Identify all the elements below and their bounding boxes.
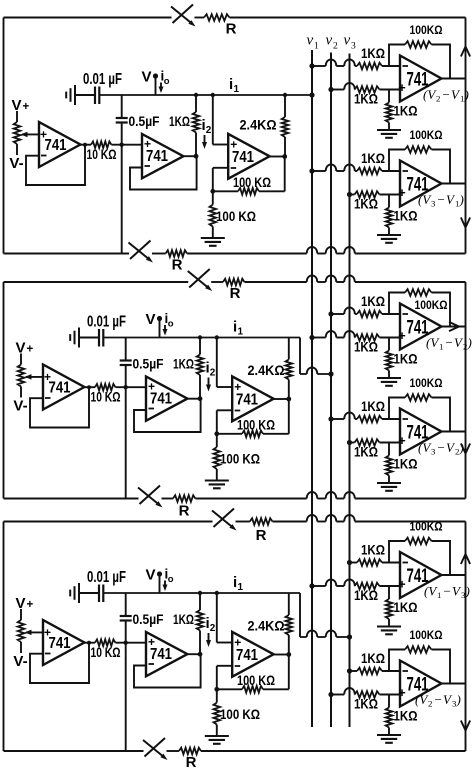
svg-text:0.5µF: 0.5µF <box>133 611 164 627</box>
svg-text:1KΩ: 1KΩ <box>394 352 418 367</box>
svg-text:100 KΩ: 100 KΩ <box>233 175 271 190</box>
svg-text:−: − <box>438 192 445 207</box>
svg-text:o: o <box>168 319 174 330</box>
svg-text:741: 741 <box>146 148 168 165</box>
svg-text:+: + <box>398 434 405 448</box>
svg-text:1: 1 <box>238 582 244 593</box>
svg-text:10 KΩ: 10 KΩ <box>87 146 117 162</box>
svg-text:2.4KΩ: 2.4KΩ <box>248 362 285 378</box>
svg-text:−: − <box>435 692 442 707</box>
svg-text:): ) <box>464 87 469 102</box>
svg-text:1KΩ: 1KΩ <box>361 399 385 414</box>
svg-text:741: 741 <box>49 380 71 397</box>
svg-text:100 KΩ: 100 KΩ <box>216 209 256 224</box>
svg-text:741: 741 <box>150 646 172 663</box>
svg-text:0.01 µF: 0.01 µF <box>87 314 126 331</box>
svg-text:1KΩ: 1KΩ <box>354 340 378 355</box>
svg-text:1KΩ: 1KΩ <box>354 445 378 460</box>
svg-text:V-: V- <box>13 653 27 670</box>
svg-text:1KΩ: 1KΩ <box>354 92 378 107</box>
svg-text:1: 1 <box>238 327 244 338</box>
svg-text:R: R <box>179 503 190 520</box>
svg-text:R: R <box>186 754 197 771</box>
svg-text:R: R <box>230 285 241 302</box>
svg-text:0.01 µF: 0.01 µF <box>87 569 126 586</box>
svg-text:−: − <box>446 335 453 350</box>
svg-text:1KΩ: 1KΩ <box>169 114 190 129</box>
svg-text:100KΩ: 100KΩ <box>410 628 443 642</box>
svg-text:3: 3 <box>351 42 356 52</box>
svg-text:0.5µF: 0.5µF <box>129 113 160 129</box>
svg-text:10 KΩ: 10 KΩ <box>91 644 121 660</box>
svg-text:100KΩ: 100KΩ <box>415 298 448 312</box>
svg-text:100 KΩ: 100 KΩ <box>220 452 260 467</box>
svg-text:V: V <box>141 69 151 86</box>
svg-text:1KΩ: 1KΩ <box>361 651 385 666</box>
svg-text:1KΩ: 1KΩ <box>173 357 194 372</box>
svg-text:3: 3 <box>431 447 436 457</box>
svg-text:): ) <box>465 584 470 599</box>
svg-text:100 KΩ: 100 KΩ <box>237 673 275 688</box>
svg-text:0.01 µF: 0.01 µF <box>83 71 122 88</box>
svg-text:1: 1 <box>314 42 319 52</box>
svg-text:1KΩ: 1KΩ <box>361 151 385 166</box>
svg-text:+: + <box>27 344 34 356</box>
svg-text:v: v <box>326 33 333 49</box>
svg-text:1KΩ: 1KΩ <box>394 104 418 119</box>
svg-text:2: 2 <box>210 368 216 379</box>
svg-text:2: 2 <box>333 42 338 52</box>
svg-text:1: 1 <box>439 342 443 352</box>
svg-text:100KΩ: 100KΩ <box>410 128 443 142</box>
svg-text:R: R <box>226 21 237 38</box>
svg-text:100KΩ: 100KΩ <box>410 23 443 37</box>
svg-text:741: 741 <box>236 647 258 664</box>
svg-text:741: 741 <box>49 635 71 652</box>
svg-text:o: o <box>168 574 174 585</box>
svg-text:0.5µF: 0.5µF <box>133 356 164 372</box>
svg-text:V-: V- <box>13 398 27 415</box>
svg-text:): ) <box>459 192 464 207</box>
svg-text:1KΩ: 1KΩ <box>394 457 418 472</box>
svg-text:10 KΩ: 10 KΩ <box>91 389 121 405</box>
svg-text:R: R <box>256 527 267 544</box>
svg-text:3: 3 <box>431 199 436 209</box>
svg-text:1KΩ: 1KΩ <box>173 612 194 627</box>
svg-text:1: 1 <box>437 590 441 600</box>
svg-text:1KΩ: 1KΩ <box>354 197 378 212</box>
svg-text:+: + <box>398 578 405 592</box>
svg-text:): ) <box>467 335 472 350</box>
svg-text:100KΩ: 100KΩ <box>410 520 443 534</box>
svg-text:+: + <box>398 329 405 343</box>
svg-text:−: − <box>438 440 445 455</box>
svg-text:1KΩ: 1KΩ <box>394 209 418 224</box>
svg-text:741: 741 <box>45 137 67 154</box>
svg-text:2: 2 <box>428 699 432 709</box>
svg-text:100 KΩ: 100 KΩ <box>237 418 275 433</box>
svg-text:100 KΩ: 100 KΩ <box>220 707 260 722</box>
svg-text:1: 1 <box>234 84 240 95</box>
svg-text:100KΩ: 100KΩ <box>410 376 443 390</box>
svg-text:1KΩ: 1KΩ <box>394 709 418 724</box>
svg-text:v: v <box>307 33 314 49</box>
svg-text:−: − <box>443 87 450 102</box>
svg-text:v: v <box>344 33 351 49</box>
svg-text:V-: V- <box>9 155 23 172</box>
svg-text:1KΩ: 1KΩ <box>394 600 418 615</box>
svg-text:741: 741 <box>232 149 254 166</box>
svg-text:−: − <box>444 584 451 599</box>
svg-text:+: + <box>27 599 34 611</box>
svg-text:1KΩ: 1KΩ <box>361 46 385 61</box>
svg-text:741: 741 <box>150 391 172 408</box>
svg-text:2.4KΩ: 2.4KΩ <box>240 117 277 133</box>
svg-text:1KΩ: 1KΩ <box>354 588 378 603</box>
svg-text:2: 2 <box>210 623 216 634</box>
svg-text:1KΩ: 1KΩ <box>361 543 385 558</box>
svg-text:R: R <box>172 257 183 274</box>
svg-text:2.4KΩ: 2.4KΩ <box>248 618 285 634</box>
svg-text:2: 2 <box>436 94 440 104</box>
svg-text:741: 741 <box>236 392 258 409</box>
svg-text:V: V <box>145 311 155 328</box>
svg-text:V: V <box>145 567 155 584</box>
svg-text:+: + <box>398 686 405 700</box>
svg-text:+: + <box>398 186 405 200</box>
svg-text:1KΩ: 1KΩ <box>361 294 385 309</box>
svg-text:2: 2 <box>206 125 212 136</box>
svg-text:+: + <box>23 101 30 113</box>
svg-text:+: + <box>398 81 405 95</box>
svg-text:1KΩ: 1KΩ <box>354 697 378 712</box>
svg-text:): ) <box>456 692 461 707</box>
svg-text:o: o <box>164 76 170 87</box>
